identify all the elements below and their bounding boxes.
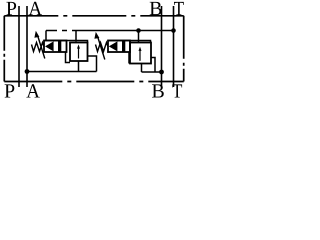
check valve box L <box>44 41 67 53</box>
arrowhead adjust R <box>94 32 99 39</box>
spring R <box>96 43 109 52</box>
boundary left edge (chain line) <box>3 16 5 82</box>
wire relief side L <box>88 56 97 72</box>
pilot line dashed segment <box>46 30 76 32</box>
label P bottom <box>5 84 15 97</box>
junction dot T <box>171 28 176 33</box>
wire top L <box>44 41 88 44</box>
junction dot B <box>159 70 164 75</box>
boundary bottom edge (chain line) <box>4 81 183 83</box>
adjust arrow R <box>98 37 105 60</box>
check poppet R <box>109 41 118 51</box>
check poppet L <box>45 41 54 51</box>
wire to A <box>27 71 97 73</box>
wire relief bottom R <box>141 64 143 73</box>
wire top R <box>108 41 151 44</box>
drain line to T <box>76 30 174 32</box>
riser relief L <box>75 31 77 42</box>
port line A <box>26 6 28 87</box>
relief arrow L <box>78 48 80 59</box>
wire to B <box>142 71 162 73</box>
port line T <box>173 6 175 87</box>
boundary right edge (chain line) <box>183 16 185 82</box>
arrowhead adjust L <box>34 31 39 38</box>
seat band R <box>122 41 125 52</box>
seat band L <box>58 41 61 52</box>
label B bottom <box>152 84 164 97</box>
relief valve box R <box>130 43 151 64</box>
wire relief bottom L <box>78 61 80 72</box>
adjust arrow L <box>38 36 45 59</box>
label T bottom <box>172 84 182 97</box>
port line P <box>18 6 20 87</box>
junction dot A <box>25 69 30 74</box>
check valve box R <box>108 41 130 53</box>
junction dot pilot R <box>136 28 141 33</box>
relief arrow R <box>139 50 141 61</box>
label T top <box>174 2 184 15</box>
label A bottom <box>26 84 39 97</box>
label P top <box>6 2 16 15</box>
spring L <box>32 43 45 52</box>
wire check to relief L <box>66 52 71 63</box>
wire check to relief R <box>128 52 130 64</box>
label A top <box>29 2 42 15</box>
port line B <box>161 6 163 87</box>
relief valve box L <box>70 43 88 62</box>
label B top <box>150 2 162 15</box>
boundary top edge (chain line) <box>4 15 183 17</box>
drop relief R <box>138 31 140 43</box>
riser check L <box>45 31 47 41</box>
wire relief side R <box>151 58 155 73</box>
